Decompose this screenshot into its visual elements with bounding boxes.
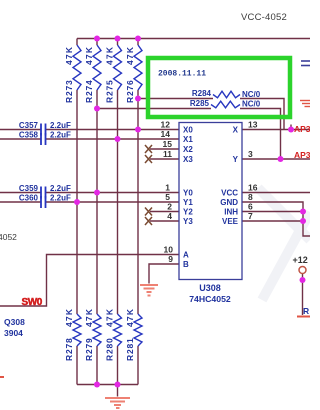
svg-text:R281: R281 (125, 337, 135, 361)
node top rail R274 (94, 36, 100, 42)
svg-text:4052: 4052 (0, 232, 17, 242)
svg-text:2: 2 (167, 202, 172, 212)
svg-text:10: 10 (164, 245, 174, 255)
svg-text:A: A (183, 251, 189, 260)
svg-text:47K: 47K (84, 46, 94, 65)
resistor R280 (114, 314, 122, 346)
svg-text:X1: X1 (183, 135, 193, 144)
wire ground stub bottom (117, 385, 119, 397)
node VEE pin7 (300, 218, 306, 224)
svg-text:11: 11 (163, 149, 172, 159)
svg-text:Y0: Y0 (183, 189, 193, 198)
svg-text:74HC4052: 74HC4052 (189, 294, 231, 304)
svg-text:3904: 3904 (4, 328, 23, 338)
wire pin8 GND row (242, 202, 310, 236)
wire C357 X0 row pin12 (0, 129, 179, 131)
resistor R273 (73, 45, 81, 90)
node R274 to R285 row (94, 106, 100, 112)
wire pin9 B to ground (149, 264, 179, 284)
wire pin16 VCC row (242, 192, 310, 194)
wire bottom rail (77, 384, 138, 386)
wire C360 Y1 row pin5 (0, 201, 179, 203)
svg-text:X2: X2 (183, 145, 193, 154)
wire VCC top rail (77, 38, 310, 40)
svg-text:3: 3 (248, 149, 253, 159)
ground bottom rail (105, 398, 130, 405)
red mark at R bottom (297, 316, 310, 318)
node Y net pin3 (278, 156, 284, 162)
svg-text:VEE: VEE (222, 217, 239, 226)
wire column2 R274 net (96, 39, 98, 385)
capacitor C358 (41, 133, 46, 145)
ground near pin9 B (140, 285, 158, 292)
svg-text:2.2uF: 2.2uF (50, 194, 71, 203)
resistor R276 (134, 45, 142, 90)
svg-text:16: 16 (248, 183, 258, 193)
svg-text:Y1: Y1 (183, 198, 193, 207)
IC pin names left (183, 126, 193, 270)
capacitor C357 (41, 124, 46, 136)
svg-text:X: X (233, 126, 239, 135)
wire +12 supply drop (302, 274, 304, 316)
svg-text:R280: R280 (105, 337, 115, 361)
IC pin numbers (161, 120, 258, 265)
no-connect X pin11 (145, 155, 152, 163)
svg-text:12: 12 (161, 120, 171, 130)
svg-text:C359: C359 (19, 184, 39, 193)
svg-text:GND: GND (220, 198, 238, 207)
node col4 X0 row (135, 127, 141, 133)
svg-text:R278: R278 (64, 337, 74, 361)
capacitor C360 (41, 196, 46, 208)
svg-text:X3: X3 (183, 155, 193, 164)
svg-text:2.2uF: 2.2uF (50, 184, 71, 193)
wire pin7 VEE row (242, 220, 303, 222)
svg-text:9: 9 (168, 254, 173, 264)
svg-text:VCC-4052: VCC-4052 (241, 12, 287, 23)
svg-text:+12: +12 (293, 255, 308, 265)
wire X3 pin11 stub (150, 158, 179, 160)
resistor R284 NC/0 (213, 91, 240, 98)
symbol fragment blue bars right edge (301, 61, 310, 66)
node top rail R276 (135, 36, 141, 42)
resistor R274 (93, 45, 101, 90)
svg-text:47K: 47K (84, 308, 94, 327)
node R276 to R284 row (135, 96, 141, 102)
svg-text:B: B (183, 260, 189, 269)
svg-text:47K: 47K (105, 46, 115, 65)
svg-text:4: 4 (167, 211, 172, 221)
resistor R279 (93, 314, 101, 346)
op IC U308 74HC4052 box (179, 123, 242, 280)
svg-text:R279: R279 (84, 337, 94, 361)
wire column3 R275 net (117, 39, 119, 385)
svg-text:U308: U308 (199, 283, 221, 293)
svg-text:NC/0: NC/0 (242, 100, 261, 109)
wire X2 pin15 stub (150, 148, 179, 150)
svg-text:NC/0: NC/0 (242, 90, 261, 99)
red fragment left edge (0, 376, 4, 378)
resistor R281 (134, 314, 142, 346)
node INH pin6 (300, 209, 306, 215)
svg-text:Y3: Y3 (183, 217, 193, 226)
watermark diagonal X (258, 188, 310, 300)
node col3 X1 row (115, 136, 121, 142)
wire AP3 stub upper (290, 125, 292, 130)
svg-text:5: 5 (165, 192, 170, 202)
svg-text:R275: R275 (105, 79, 115, 103)
svg-text:13: 13 (248, 120, 258, 130)
wire pin13 X row (242, 129, 310, 131)
node bottom rail col2 (94, 382, 100, 388)
svg-text:R: R (303, 306, 309, 316)
svg-text:Y: Y (233, 155, 239, 164)
resistor R275 (114, 45, 122, 90)
svg-text:15: 15 (163, 139, 173, 149)
svg-text:R285: R285 (190, 99, 210, 108)
svg-text:VCC: VCC (221, 189, 238, 198)
wire C358 X1 row pin14 (0, 138, 179, 140)
node bottom rail col3 (115, 382, 121, 388)
svg-text:AP3: AP3 (294, 124, 310, 134)
svg-text:7: 7 (248, 211, 253, 221)
symbol fragment red bars right edge (300, 101, 310, 107)
node +12 drop (300, 277, 306, 283)
svg-text:R274: R274 (84, 79, 94, 103)
svg-text:SW0: SW0 (22, 297, 43, 308)
svg-text:47K: 47K (125, 46, 135, 65)
no-connect X pin15 (145, 145, 152, 153)
svg-text:14: 14 (161, 129, 171, 139)
svg-text:2008.11.11: 2008.11.11 (158, 70, 206, 79)
green highlight box (148, 58, 290, 117)
svg-text:X0: X0 (183, 126, 193, 135)
no-connect X pin4 (145, 217, 152, 225)
svg-text:R284: R284 (192, 89, 212, 98)
wire R285 net row (97, 109, 281, 160)
svg-text:Q308: Q308 (4, 317, 25, 327)
svg-text:47K: 47K (64, 308, 74, 327)
svg-text:8: 8 (248, 192, 253, 202)
wire pin6 INH row (242, 211, 303, 213)
svg-text:AP3: AP3 (294, 150, 310, 160)
svg-text:2.2uF: 2.2uF (50, 131, 71, 140)
node top rail R275 (115, 36, 121, 42)
wire Y2 pin2 stub (150, 211, 179, 213)
svg-text:47K: 47K (125, 308, 135, 327)
svg-text:2.2uF: 2.2uF (50, 121, 71, 130)
wire SW0 net to pin10 A (0, 255, 179, 307)
svg-text:C358: C358 (19, 131, 39, 140)
svg-text:6: 6 (248, 202, 253, 212)
IC pin names right (220, 126, 238, 227)
wire column1 R273 net (76, 39, 78, 385)
svg-text:INH: INH (224, 208, 238, 217)
svg-text:Y2: Y2 (183, 208, 193, 217)
svg-text:C360: C360 (19, 194, 39, 203)
svg-text:47K: 47K (105, 308, 115, 327)
no-connect X pin2 (145, 208, 152, 216)
node col2 Y0 row (94, 190, 100, 196)
capacitor C359 (41, 187, 46, 199)
svg-text:R276: R276 (125, 79, 135, 103)
node col1 Y1 row (74, 199, 80, 205)
svg-text:1: 1 (165, 183, 170, 193)
wire R284 net row (138, 99, 284, 130)
wire Y3 pin4 stub (150, 220, 179, 222)
power +12 symbol (299, 267, 306, 274)
wire pin3 Y row (242, 158, 310, 160)
svg-text:C357: C357 (19, 121, 39, 130)
wire C359 Y0 row pin1 (0, 192, 179, 194)
node AP3 pin13 (288, 127, 294, 133)
wire column4 R276 net (137, 39, 139, 385)
resistor R278 (73, 314, 81, 346)
svg-text:R273: R273 (64, 79, 74, 103)
resistor R285 NC/0 (211, 101, 240, 108)
svg-text:47K: 47K (64, 46, 74, 65)
